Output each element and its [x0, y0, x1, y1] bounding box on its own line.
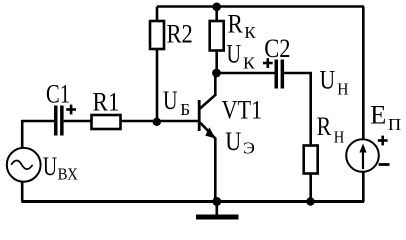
- svg-text:C1: C1: [46, 79, 70, 108]
- minus sign of EP: [379, 163, 390, 166]
- svg-text:R: R: [228, 9, 244, 38]
- svg-text:Н: Н: [334, 127, 345, 146]
- source EP circle: [346, 139, 379, 172]
- wire C2 to load corner: [284, 73, 311, 146]
- node load junction: [306, 197, 314, 205]
- wire emitter vertical: [214, 138, 217, 202]
- wire collector vertical: [214, 73, 217, 96]
- svg-text:К: К: [244, 23, 256, 42]
- transistor VT1: [198, 95, 216, 139]
- node U_К: [212, 69, 221, 78]
- label R_Н: [317, 112, 345, 146]
- svg-text:ВХ: ВХ: [58, 165, 78, 184]
- node U_Б: [153, 118, 161, 126]
- svg-text:U: U: [227, 39, 242, 68]
- svg-text:R1: R1: [93, 87, 120, 116]
- wire top bus: [157, 5, 364, 8]
- plus sign of C2: [263, 58, 273, 68]
- svg-text:U: U: [163, 86, 178, 115]
- label U_Б: [163, 86, 190, 119]
- label U_Э: [225, 127, 255, 158]
- svg-text:Е: Е: [370, 101, 386, 130]
- resistor R1: [92, 115, 121, 129]
- svg-text:R2: R2: [167, 19, 193, 48]
- plus sign of C1: [66, 105, 76, 115]
- node emitter-ground junction: [212, 197, 221, 206]
- resistor RK: [210, 7, 224, 74]
- label U_ВХ: [43, 152, 78, 184]
- wire EP bottom: [362, 172, 365, 203]
- label E_П: [370, 101, 401, 134]
- wire right branch to EP: [362, 7, 365, 140]
- label U_Н: [320, 65, 349, 98]
- wire input to C1: [22, 120, 55, 123]
- svg-text:U: U: [320, 65, 336, 94]
- label U_К: [227, 39, 256, 72]
- svg-text:R: R: [317, 112, 332, 141]
- sine wave: [11, 161, 32, 170]
- capacitor C1: [54, 106, 64, 136]
- wire R1 to base: [121, 120, 200, 123]
- svg-text:Э: Э: [243, 139, 255, 158]
- wire left branch: [21, 120, 24, 149]
- resistor R2: [150, 7, 164, 122]
- node top junction: [212, 3, 221, 12]
- svg-text:Б: Б: [180, 100, 190, 119]
- svg-text:Н: Н: [337, 80, 348, 99]
- label R_К: [228, 9, 257, 42]
- capacitor C2: [275, 60, 285, 89]
- svg-text:U: U: [225, 127, 241, 156]
- svg-text:К: К: [243, 53, 256, 72]
- resistor RN: [304, 146, 318, 202]
- svg-text:П: П: [388, 115, 401, 134]
- wire C1 to R1: [64, 120, 92, 123]
- ground: [196, 202, 239, 220]
- source U_vx AC circle: [7, 148, 41, 182]
- wire UK to C2: [217, 72, 275, 75]
- svg-text:VT1: VT1: [222, 96, 263, 125]
- wire bottom bus: [22, 200, 365, 203]
- plus sign of EP: [378, 136, 388, 146]
- svg-text:U: U: [43, 152, 57, 181]
- EP arrow: [359, 144, 366, 170]
